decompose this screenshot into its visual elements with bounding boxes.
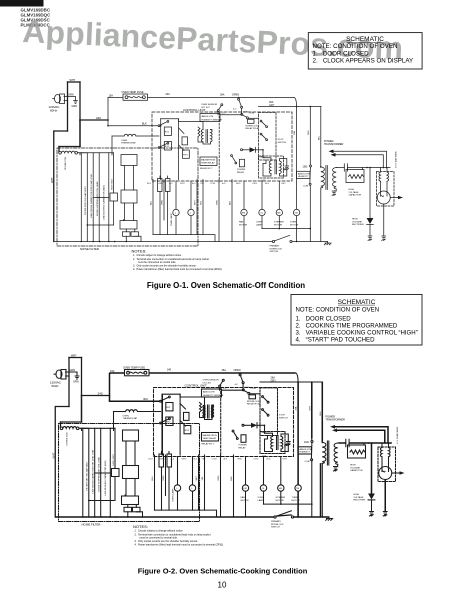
svg-text:Figure O-1. Oven Schematic-Off: Figure O-1. Oven Schematic-Off Condition [147, 281, 305, 290]
svg-text:SCHEMATIC: SCHEMATIC [338, 299, 376, 306]
svg-text:2. CLOCK APPEARS ON DISPLAY: 2. CLOCK APPEARS ON DISPLAY [313, 57, 414, 64]
model number list [21, 7, 52, 27]
schematic instance: figure O-1 off condition [49, 79, 404, 271]
note box figure O-2 [291, 295, 422, 346]
svg-text:SCHEMATIC: SCHEMATIC [346, 36, 384, 43]
header black bar [0, 0, 44, 7]
svg-text:NOTE: CONDITION OF OVEN: NOTE: CONDITION OF OVEN [313, 43, 398, 50]
svg-text:2. COOKING TIME PROGRAMMED: 2. COOKING TIME PROGRAMMED [296, 322, 398, 329]
svg-text:Figure O-2. Oven Schematic-Coo: Figure O-2. Oven Schematic-Cooking Condi… [138, 566, 308, 575]
svg-text:10: 10 [218, 581, 227, 590]
schematic instance: figure O-2 cooking condition [50, 354, 405, 546]
svg-text:NOTE: CONDITION OF OVEN: NOTE: CONDITION OF OVEN [296, 307, 380, 314]
note box figure O-1 [308, 33, 422, 69]
svg-text:1. DOOR CLOSED: 1. DOOR CLOSED [296, 315, 352, 322]
svg-text:4. “START” PAD TOUCHED: 4. “START” PAD TOUCHED [296, 337, 376, 344]
svg-text:3. VARIABLE COOKING CONTROL: 3. VARIABLE COOKING CONTROL “HIGH” [296, 330, 418, 337]
wire: energized path overlay (cooking condition) [55, 373, 391, 517]
svg-text:1. DOOR CLOSED: 1. DOOR CLOSED [313, 50, 370, 57]
